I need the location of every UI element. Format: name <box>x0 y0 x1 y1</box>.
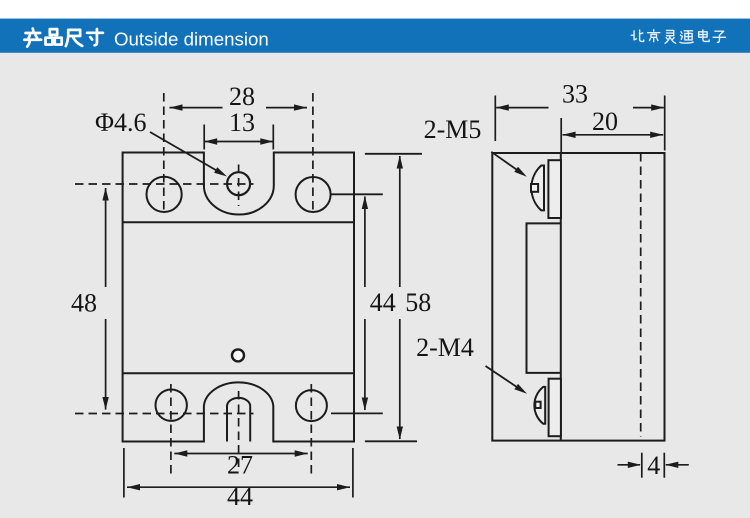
glyph 产 <box>24 29 41 47</box>
dimension 4 <box>618 453 689 478</box>
reference line body top <box>365 153 422 155</box>
dimension 33 <box>495 96 664 151</box>
glyph 尺 <box>66 30 82 46</box>
svg-text:Φ4.6: Φ4.6 <box>95 108 147 137</box>
reference line right bottom-hole <box>331 412 383 414</box>
dimension 27 <box>174 453 307 455</box>
svg-text:2-M4: 2-M4 <box>416 333 474 362</box>
reference line body bottom <box>365 440 417 442</box>
header right CJK 北京灵通电子 <box>631 30 725 44</box>
hole bottom-left <box>156 390 187 421</box>
bottom screw slot M4 <box>535 402 540 408</box>
bottom screw head M4 <box>534 387 545 424</box>
centerline bottom-left vertical <box>170 384 172 476</box>
side view middle block <box>527 223 561 373</box>
centerline top horizontal <box>75 183 254 185</box>
hole bottom-right <box>296 390 327 421</box>
svg-text:20: 20 <box>592 107 618 136</box>
indicator circle <box>232 349 244 361</box>
top screw head M5 <box>531 166 544 211</box>
center hole phi4.6 <box>227 172 250 195</box>
top screw slot M5 <box>531 184 538 192</box>
glyph 灵 <box>665 30 676 43</box>
hole top-left <box>147 177 182 212</box>
svg-text:33: 33 <box>562 80 588 109</box>
svg-text:4: 4 <box>647 451 660 480</box>
svg-text:44: 44 <box>227 482 253 511</box>
dimension 28 <box>170 107 308 109</box>
centerline top-right vertical <box>312 93 314 213</box>
side view body outline <box>492 153 664 441</box>
svg-text:28: 28 <box>229 82 255 111</box>
dimension 20 <box>561 118 663 153</box>
centerline bottom-right vertical <box>310 384 312 476</box>
svg-text:Outside dimension: Outside dimension <box>114 29 269 50</box>
svg-text:48: 48 <box>71 289 97 318</box>
glyph 寸 <box>87 29 103 45</box>
side view front face line <box>560 153 562 441</box>
svg-text:58: 58 <box>405 288 431 317</box>
dimension 58 vertical <box>399 156 401 439</box>
centerline center hole vertical <box>238 165 240 207</box>
bottom center slot <box>227 398 250 442</box>
svg-text:2-M5: 2-M5 <box>424 115 482 144</box>
dimension 48 vertical <box>105 188 107 410</box>
front view top flange line <box>123 221 354 223</box>
svg-text:27: 27 <box>227 451 253 480</box>
centerline slot vertical <box>238 391 240 467</box>
glyph 电 <box>699 30 710 42</box>
top terminal plate M5 <box>548 160 561 218</box>
dimension 44 vertical <box>364 197 366 411</box>
centerline bottom horizontal <box>75 413 254 415</box>
leader phi4.6 <box>150 132 222 174</box>
dashed centerlines front view <box>75 93 313 476</box>
glyph 通 <box>680 31 693 43</box>
header blue band <box>0 19 750 53</box>
dimension 44 bottom <box>124 448 353 498</box>
leader 2-M5 <box>491 152 522 174</box>
front view bottom flange line <box>123 372 354 374</box>
glyph 子 <box>713 31 725 42</box>
leader 2-M4 <box>486 366 523 391</box>
glyph 北 <box>631 30 644 41</box>
glyph 品 <box>46 29 62 44</box>
front view body outline <box>123 153 354 442</box>
hole top-right <box>296 177 331 212</box>
centerline top-left vertical <box>163 93 165 213</box>
svg-text:13: 13 <box>229 108 255 137</box>
glyph 京 <box>648 30 660 42</box>
side view base dashed line <box>640 153 642 437</box>
dimension 13 <box>204 125 273 150</box>
reference line right top-hole <box>331 193 383 195</box>
bottom terminal plate M4 <box>549 379 561 437</box>
svg-text:44: 44 <box>370 288 396 317</box>
header title CJK 产品尺寸 <box>24 29 102 47</box>
